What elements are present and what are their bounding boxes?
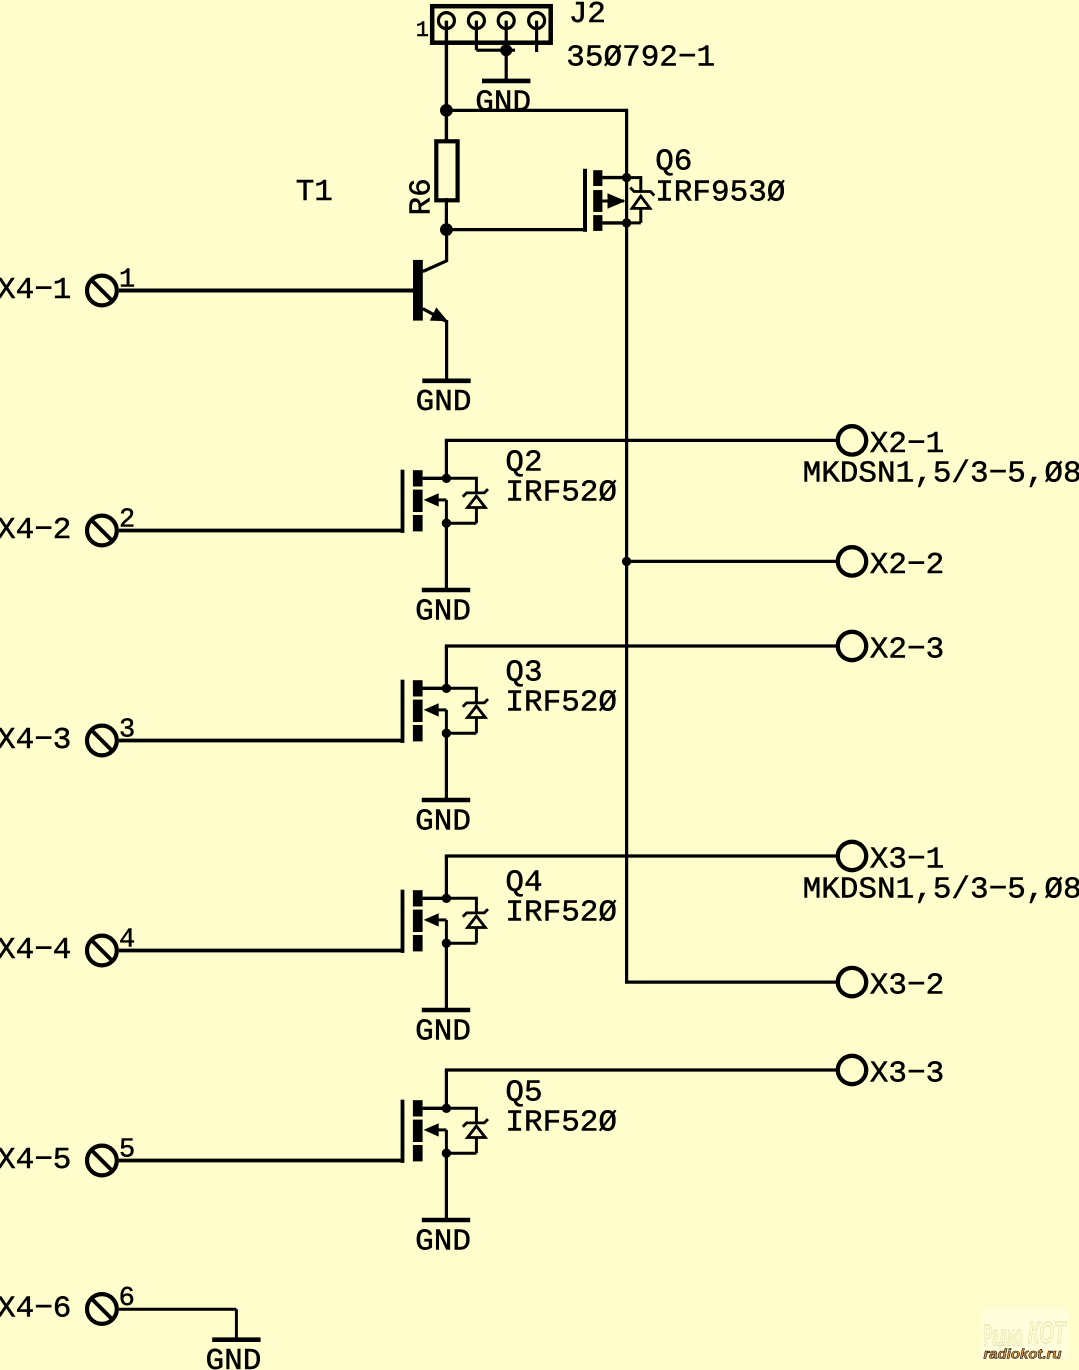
svg-text:X4−3: X4−3 [0, 723, 71, 758]
svg-text:Q3: Q3 [505, 655, 542, 690]
svg-text:X2−2: X2−2 [870, 548, 944, 583]
svg-text:radiokot.ru: radiokot.ru [984, 1346, 1063, 1361]
svg-text:КОТ: КОТ [1028, 1315, 1068, 1350]
svg-text:R6: R6 [405, 178, 440, 215]
svg-text:Q2: Q2 [505, 445, 542, 480]
svg-text:Q5: Q5 [505, 1075, 542, 1110]
svg-text:T1: T1 [296, 175, 333, 210]
svg-text:5: 5 [119, 1136, 135, 1166]
svg-text:X3−3: X3−3 [870, 1056, 944, 1091]
svg-text:1: 1 [416, 18, 429, 43]
svg-text:X4−1: X4−1 [0, 273, 71, 308]
svg-text:X4−2: X4−2 [0, 513, 71, 548]
svg-text:Q4: Q4 [505, 865, 542, 900]
svg-text:X2−3: X2−3 [870, 632, 944, 667]
svg-text:J2: J2 [569, 0, 606, 32]
svg-text:MKDSN1,5/3−5,Ø8: MKDSN1,5/3−5,Ø8 [803, 873, 1079, 908]
svg-text:Q6: Q6 [655, 145, 692, 180]
svg-text:3: 3 [119, 716, 135, 746]
svg-text:35Ø792−1: 35Ø792−1 [566, 40, 715, 75]
svg-text:2: 2 [119, 506, 135, 536]
svg-text:X4−5: X4−5 [0, 1143, 71, 1178]
svg-text:IRF953Ø: IRF953Ø [655, 175, 785, 210]
svg-text:X4−4: X4−4 [0, 933, 71, 968]
svg-text:4: 4 [119, 926, 135, 956]
svg-text:X3−2: X3−2 [870, 969, 944, 1004]
svg-text:MKDSN1,5/3−5,Ø8: MKDSN1,5/3−5,Ø8 [803, 457, 1079, 492]
svg-text:X4−6: X4−6 [0, 1292, 71, 1327]
svg-text:1: 1 [119, 266, 135, 296]
